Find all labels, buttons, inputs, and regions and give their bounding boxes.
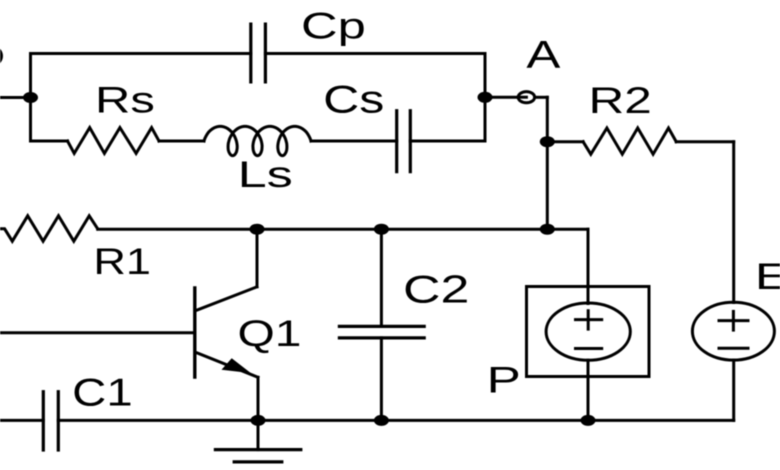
capacitor Cp xyxy=(251,24,266,82)
svg-text:Cp: Cp xyxy=(301,5,366,47)
wire bottom branch to Rs xyxy=(31,140,68,143)
wire C2 bottom lead xyxy=(380,338,383,421)
wire base xyxy=(0,331,195,334)
svg-text:A: A xyxy=(526,34,560,77)
inductor Ls xyxy=(204,126,311,155)
wire left lead crystal xyxy=(0,96,31,99)
terminal A circle xyxy=(518,92,534,103)
wire A vertical xyxy=(546,97,549,229)
wire top branch left of Cp xyxy=(31,52,251,55)
node dot crystal right xyxy=(478,92,493,103)
source P plus xyxy=(576,311,602,329)
svg-text:Cs: Cs xyxy=(323,79,384,122)
cut terminal at left edge xyxy=(0,47,2,65)
node dot collector xyxy=(250,224,265,235)
node dot C2 top xyxy=(374,224,389,235)
source P box xyxy=(527,287,650,377)
wire bottom rail xyxy=(58,419,733,422)
svg-text:Q1: Q1 xyxy=(238,312,302,354)
wire Ls to Cs xyxy=(311,140,397,143)
node dot R2 tap xyxy=(540,136,555,147)
wire P bottom lead xyxy=(587,360,590,420)
source P circle xyxy=(546,303,630,360)
wire E top vertical xyxy=(732,142,735,303)
resistor Rs xyxy=(68,128,160,154)
capacitor C1 xyxy=(43,392,58,450)
source E minus xyxy=(719,347,748,350)
svg-text:P: P xyxy=(487,358,521,400)
node dot P bottom xyxy=(581,415,596,426)
resistor R1 xyxy=(0,216,98,241)
node dot C2 bottom xyxy=(374,415,389,426)
source E circle xyxy=(692,302,774,360)
capacitor Cs xyxy=(397,111,411,172)
source E plus xyxy=(719,311,748,330)
wire R2 to E corner xyxy=(676,140,734,143)
node dot A rail xyxy=(540,224,555,235)
svg-text:R2: R2 xyxy=(589,79,652,121)
wire C1 lead left xyxy=(0,419,43,422)
terminal A tick xyxy=(518,96,526,99)
wire crystal right vertical xyxy=(484,54,487,142)
wire Cs to right vertical xyxy=(410,140,485,143)
svg-text:Ls: Ls xyxy=(238,153,293,195)
svg-text:E: E xyxy=(755,255,780,297)
node dot crystal left xyxy=(23,92,38,103)
transistor Q1 xyxy=(195,229,258,420)
capacitor C2 xyxy=(339,326,424,338)
wire Rs to Ls xyxy=(159,140,204,143)
wire R2 lead left xyxy=(547,140,583,143)
svg-text:C2: C2 xyxy=(403,269,469,312)
wire P top vertical xyxy=(587,229,590,303)
node dot emitter rail xyxy=(251,415,266,426)
wire right junction to terminal A xyxy=(485,96,518,99)
wire R1 rail xyxy=(98,228,548,231)
wire E bottom lead xyxy=(732,360,735,420)
wire top branch right of Cp xyxy=(265,52,485,55)
wire C2 top lead xyxy=(380,229,383,326)
svg-text:R1: R1 xyxy=(93,240,151,282)
source P minus xyxy=(576,347,602,350)
wire terminal A to corner xyxy=(535,96,548,99)
svg-text:C1: C1 xyxy=(72,372,133,415)
resistor R2 xyxy=(583,128,676,154)
wire rail to P corner xyxy=(547,228,588,231)
ground xyxy=(215,420,300,462)
wire crystal left vertical xyxy=(29,54,32,142)
svg-text:Rs: Rs xyxy=(95,79,155,121)
